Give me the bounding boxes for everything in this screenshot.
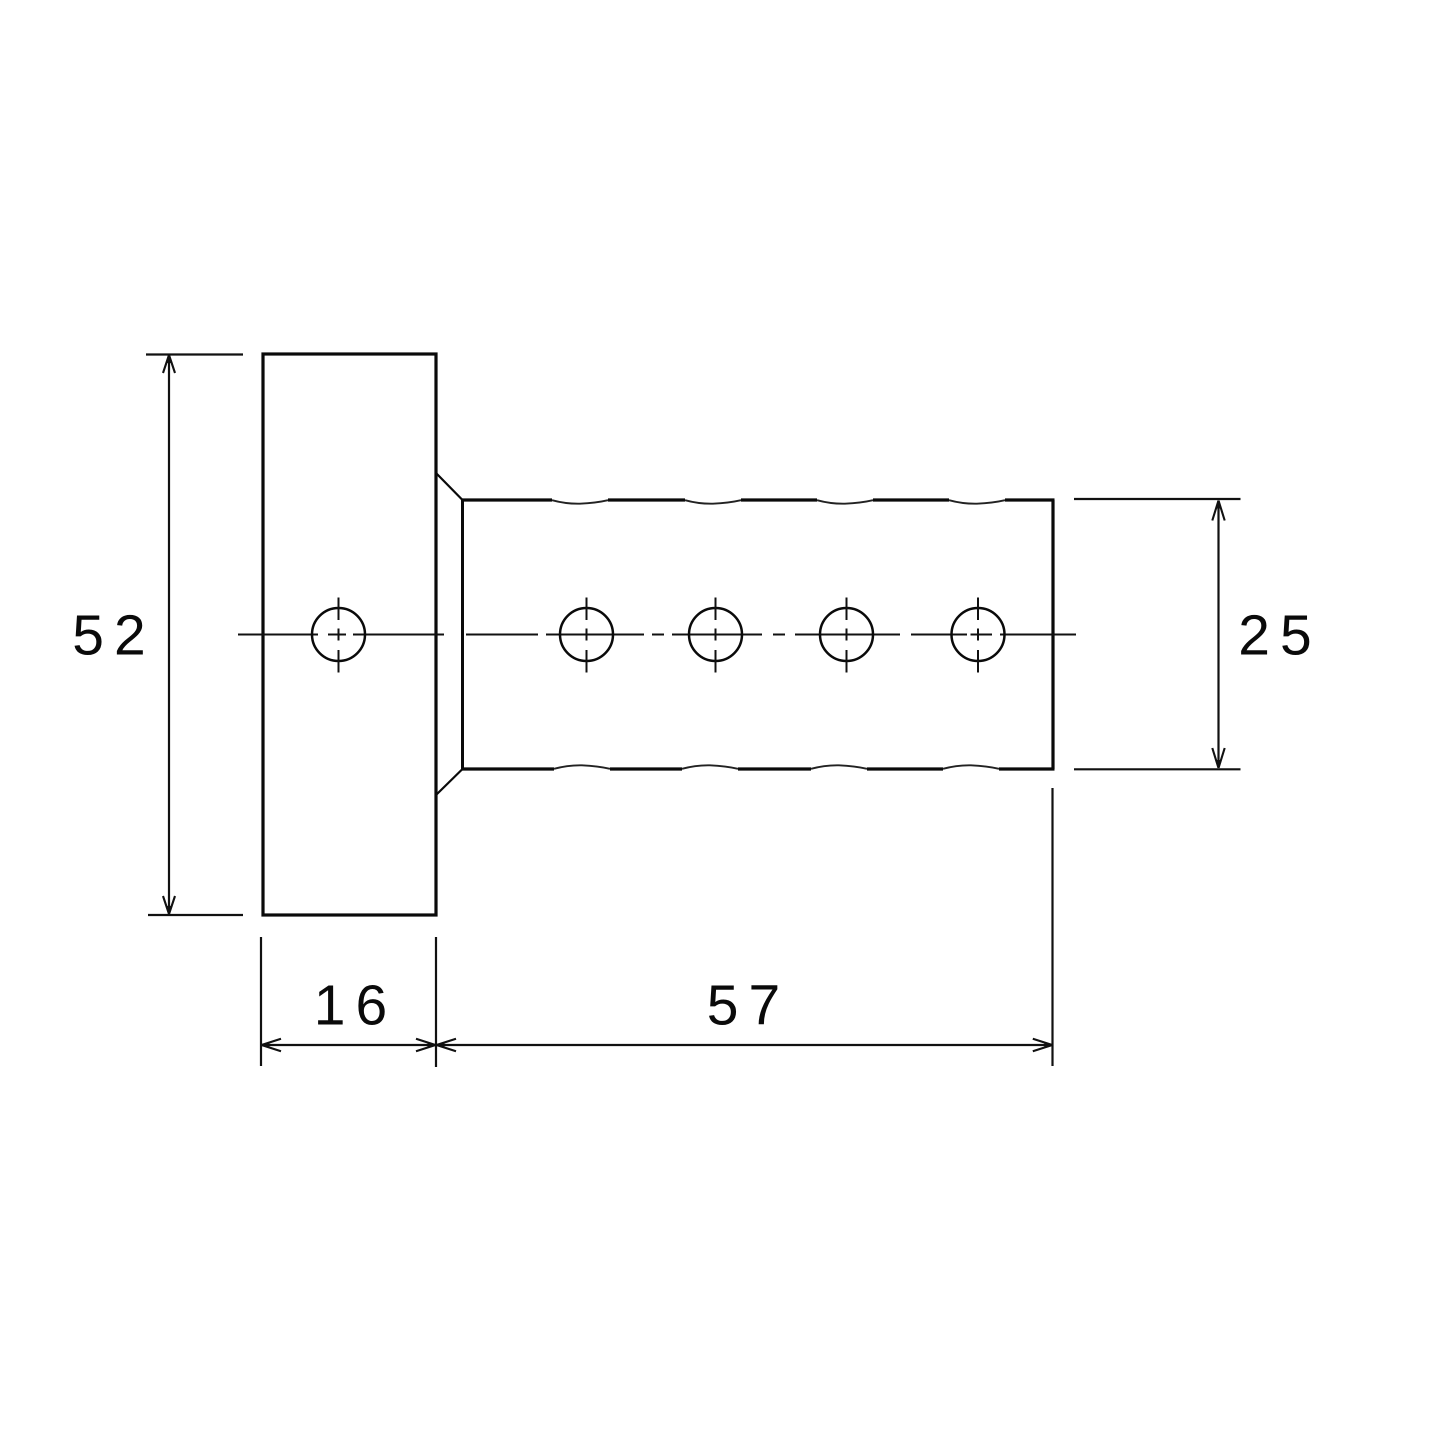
dim 16 arrow right (416, 1039, 436, 1052)
dim 52 line (168, 356, 170, 914)
svg-text:16: 16 (314, 974, 397, 1038)
hole H4 crosshair (846, 598, 848, 673)
centerline horizontal (238, 634, 1076, 636)
hole H5 crosshair (977, 598, 979, 673)
dim 57 line (437, 1044, 1052, 1046)
flange outline (263, 354, 436, 915)
shaft top edge waves (552, 500, 1005, 504)
dim 25 extension line top (1074, 498, 1241, 500)
svg-text:57: 57 (707, 974, 790, 1038)
neck chamfer bottom (436, 769, 463, 795)
dim 52 extension line bottom (148, 914, 243, 916)
dim 16 line (262, 1044, 435, 1046)
dim 16/57 extension line right (1051, 788, 1053, 1066)
svg-text:52: 52 (72, 604, 155, 668)
svg-text:25: 25 (1238, 604, 1321, 668)
dim 57 arrow right (1033, 1039, 1053, 1052)
hole H1 (flange) (312, 608, 365, 661)
hole H2 (560, 608, 613, 661)
hole H2 crosshair (586, 598, 588, 673)
dim 25 line (1217, 501, 1219, 768)
neck chamfer top (436, 473, 463, 500)
dim 52 arrow down (163, 896, 175, 914)
dim 25 arrow down (1212, 748, 1224, 768)
dim 57 arrow left (437, 1039, 457, 1052)
hole H3 (689, 608, 742, 661)
dim 52 arrow up (163, 355, 175, 373)
hole H3 crosshair (715, 598, 717, 673)
shaft bottom edge waves (554, 765, 999, 769)
dim 16 arrow left (262, 1039, 282, 1052)
shaft bottom edge (461, 767, 1055, 770)
shaft top edge (461, 498, 1055, 501)
hole H4 (820, 608, 873, 661)
dim 16/57 extension line left (260, 937, 262, 1066)
dim 25 extension line bottom (1074, 768, 1241, 770)
shaft left edge (461, 500, 464, 769)
dim 16/57 extension line middle (435, 937, 437, 1067)
shaft right edge (1051, 500, 1054, 769)
hole H5 (952, 608, 1005, 661)
dim 25 arrow up (1212, 501, 1224, 521)
dim 52 extension line top (146, 353, 243, 355)
hole H1 crosshair (338, 598, 340, 673)
